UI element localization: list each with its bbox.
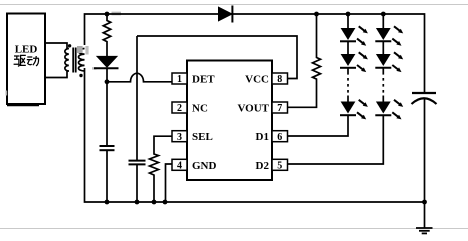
- svg-text:D2: D2: [256, 160, 270, 172]
- svg-text:VCC: VCC: [245, 74, 269, 86]
- svg-text:GND: GND: [192, 160, 217, 172]
- svg-text:8: 8: [277, 74, 282, 85]
- svg-text:6: 6: [277, 132, 282, 143]
- svg-text:D1: D1: [256, 131, 269, 143]
- svg-text:5: 5: [277, 161, 282, 172]
- svg-text:VOUT: VOUT: [237, 103, 269, 115]
- svg-text:4: 4: [177, 161, 182, 172]
- svg-text:DET: DET: [192, 74, 215, 86]
- svg-text:7: 7: [277, 103, 282, 114]
- svg-text:NC: NC: [192, 103, 208, 115]
- svg-text:2: 2: [177, 103, 182, 114]
- svg-text:3: 3: [177, 132, 182, 143]
- svg-text:SEL: SEL: [192, 131, 213, 143]
- svg-text:1: 1: [177, 74, 182, 85]
- svg-text:LED: LED: [15, 44, 38, 56]
